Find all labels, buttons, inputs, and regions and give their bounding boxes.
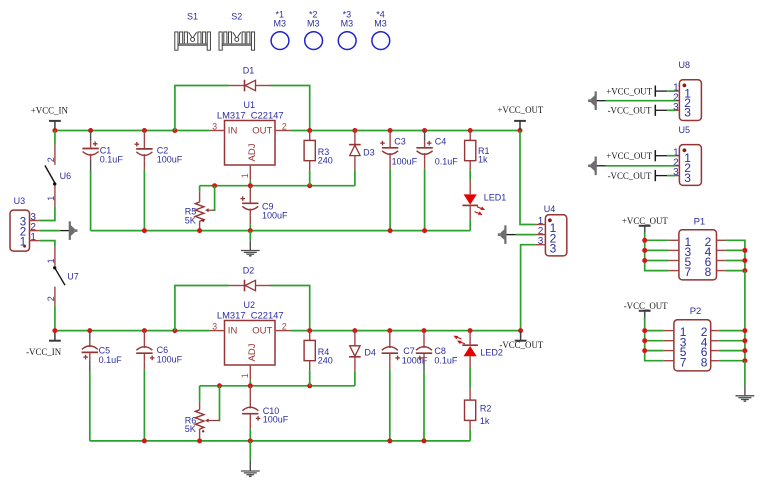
svg-text:P1: P1 [694,216,706,227]
svg-text:M3: M3 [273,18,286,28]
junction P2 left row 3 [642,338,647,343]
wire P2 right row 6 [719,350,745,352]
wire U4 pin2 [516,234,536,236]
op-amp U1 LM317 box [209,121,290,186]
switch U6 [45,131,57,207]
junction R4 top [307,328,312,333]
svg-text:LED2: LED2 [480,348,503,358]
svg-text:0.1uF: 0.1uF [434,355,458,365]
junction -VCC_OUT [518,328,523,333]
svg-text:C3: C3 [394,137,406,147]
junction R1 top [468,128,473,133]
svg-text:S1: S1 [187,11,198,21]
junction P2 left row 1 [642,328,647,333]
resistor R4 [304,331,315,386]
junction -VCC_IN [52,328,57,333]
wire GND rail bottom section [90,440,470,442]
svg-text:3: 3 [212,321,217,331]
junction C2 bottom [142,228,147,233]
svg-text:7: 7 [685,265,692,279]
svg-text:240: 240 [318,155,333,165]
junction P1 right row 6 [742,258,747,263]
svg-text:R2: R2 [480,403,492,413]
svg-text:+VCC_IN: +VCC_IN [31,105,69,115]
junction C9 bottom [248,228,253,233]
wire U5 pin1 [667,155,675,157]
wire -VCC_OUT bus [290,330,520,332]
svg-text:1: 1 [240,173,250,178]
wire ADJ2 net [200,385,355,387]
capacitor C5 [82,331,98,441]
wire P1 left row 3 [645,249,669,251]
ground below C10 [241,441,260,476]
diode D2 [229,280,271,292]
junction P2 right row 6 [742,348,747,353]
junction P2 right row 2 [742,328,747,333]
svg-text:+VCC_OUT: +VCC_OUT [606,151,653,161]
wire U8 pin2 [606,100,676,102]
wire R5 top stub [199,191,201,202]
wire P1 left column [644,227,646,233]
resistor R2 [465,388,476,441]
wire P1 right row 4 [726,249,745,251]
svg-text:+VCC_OUT: +VCC_OUT [497,105,544,115]
net flag U5 pin3 -VCC_OUT [655,170,667,181]
svg-text:OUT: OUT [252,125,272,136]
junction +VCC_IN [52,128,57,133]
svg-text:2: 2 [282,321,287,331]
svg-text:1: 1 [20,236,26,248]
svg-text:U5: U5 [679,125,691,135]
svg-text:3: 3 [212,121,217,131]
supply -VCC_OUT mid [515,331,527,340]
wire U3 pin3 to U6 [40,206,55,220]
junction R3 bottom [307,183,312,188]
svg-text:1k: 1k [480,416,490,426]
junction P1 left row 5 [642,258,647,263]
svg-text:-VCC_OUT: -VCC_OUT [499,340,543,350]
mounting hole M3 *4 [372,32,390,50]
wire U8 pin3 [667,109,675,111]
svg-text:2: 2 [46,157,56,162]
svg-text:D1: D1 [243,65,255,75]
wire U5 pin3 [667,175,675,177]
junction P2 left row 5 [642,348,647,353]
junction P1 left row 1 [642,238,647,243]
svg-text:3: 3 [673,102,679,113]
svg-text:7: 7 [680,355,687,369]
wire P2 left row 3 [645,340,664,342]
wire U3 pin1 to U7 [40,241,55,247]
junction D1 branch [172,128,177,133]
capacitor C2 [135,131,153,231]
junction R5 bottom [197,228,202,233]
svg-text:U1: U1 [243,100,255,110]
heatsink S1 [175,32,211,50]
supply -VCC_OUT P2 [639,311,651,320]
junction C6 bottom [142,438,147,443]
svg-text:100uF: 100uF [392,157,418,167]
junction C2 top [142,128,147,133]
wire R5 top [199,186,201,192]
ground arrow U5 [588,157,597,176]
wire LED1 anode [469,181,471,195]
svg-text:240: 240 [318,355,333,365]
svg-text:D3: D3 [363,147,375,157]
svg-text:M3: M3 [341,18,354,28]
junction C10 bottom [248,438,253,443]
svg-text:-VCC_OUT: -VCC_OUT [624,301,668,311]
svg-text:100uF: 100uF [262,211,288,221]
capacitor C8 [416,331,432,441]
supply +VCC_IN [49,121,61,130]
wire P1 left row 5 [645,260,669,262]
wire D1 right leg [271,86,310,131]
switch U7 [53,247,65,331]
svg-text:3: 3 [684,171,691,185]
svg-text:0.1uF: 0.1uF [435,157,459,167]
wire -VCC_IN bus [55,330,210,332]
svg-text:U2: U2 [243,300,255,310]
heatsink S2 [219,32,255,50]
junction R4 bottom [307,383,312,388]
op-amp U2 LM317 box [209,321,290,386]
svg-text:C4: C4 [435,137,447,147]
junction C8 bottom [422,438,427,443]
connector P1 box [669,230,726,280]
junction ADJ pin [248,183,253,188]
svg-text:IN: IN [228,325,238,336]
svg-text:1: 1 [30,232,36,243]
svg-text:M3: M3 [307,18,320,28]
supply -VCC_IN [49,331,61,340]
svg-text:1: 1 [240,373,250,378]
svg-text:0.1uF: 0.1uF [100,155,124,165]
svg-text:LM317 C22147: LM317 C22147 [217,110,284,121]
mounting hole M3 *3 [338,32,356,50]
connector U5 box [675,145,701,186]
wire U3 pin2 [40,230,61,232]
capacitor C3 [380,131,398,231]
wire +VCC_OUT to U4 pin1 [520,131,535,225]
junction P1 right row 8 [742,268,747,273]
capacitor C4 [416,131,432,231]
junction P1 right row 4 [742,248,747,253]
wire P1 right row 8 [726,270,745,272]
wire P2 left row 1 [645,330,664,332]
wire D2 right leg [271,286,310,331]
svg-text:100uF: 100uF [157,355,183,365]
wire wiper [214,186,215,211]
svg-text:ADJ: ADJ [247,343,258,361]
junction C4 bottom [422,228,427,233]
wire P2 left column [644,312,646,317]
svg-text:100uF: 100uF [157,155,183,165]
wire LED2 anode [469,331,471,345]
junction C8 top [422,328,427,333]
resistor R3 [304,131,315,186]
wire P2 to P1 right column [744,271,746,361]
svg-text:2: 2 [282,121,287,131]
junction C3 top [388,128,393,133]
svg-text:3: 3 [550,241,557,255]
svg-text:1k: 1k [478,154,488,164]
junction R3 top [307,128,312,133]
svg-text:D4: D4 [364,347,376,357]
junction D3 top [352,128,357,133]
wire LED1 cathode [469,206,471,220]
svg-text:5K: 5K [185,216,196,226]
svg-text:-VCC_OUT: -VCC_OUT [608,106,652,116]
ground arrow U8 [588,91,597,110]
svg-text:3: 3 [538,236,544,247]
wire ADJ net [200,185,355,187]
capacitor C7 [382,331,400,441]
junction wiper [212,183,217,188]
svg-text:+VCC_OUT: +VCC_OUT [606,87,653,97]
junction C5 top [87,328,92,333]
wire U4 pin3 to -VCC_OUT rail [521,245,536,331]
svg-text:D2: D2 [243,265,255,275]
wire P2 right row 4 [719,340,745,342]
svg-text:IN: IN [228,125,238,136]
wire U5 pin2 [606,165,676,167]
svg-text:LM317 C22147: LM317 C22147 [217,310,284,321]
junction C7 top [387,328,392,333]
wire D2 left leg [175,286,229,331]
junction R6 bottom [197,438,202,443]
wire OUT bus [290,130,520,132]
wire P1 right row 6 [726,260,745,262]
connector U8 box [675,80,701,121]
ground below C9 [241,231,260,256]
svg-text:LED1: LED1 [484,193,507,203]
junction D2 branch [172,328,177,333]
wire D1 left leg [175,86,229,131]
capacitor C10 [242,386,260,441]
net flag U8 pin1 +VCC_OUT [655,86,667,97]
junction C3 bottom [388,228,393,233]
svg-text:2: 2 [46,296,56,301]
junction +VCC_OUT [518,128,523,133]
wire R6 top [199,386,201,402]
svg-text:U7: U7 [67,271,79,281]
potentiometer R6 [195,410,219,441]
junction P2 right row 8 [742,358,747,363]
junction D4 top [352,328,357,333]
wire wiper 2 [218,386,219,421]
wire P2 right row 8 [719,360,745,362]
connector U4 box [535,215,566,256]
svg-text:U8: U8 [679,60,691,70]
wire P2 right row 2 [719,330,745,332]
ground below P2 [736,361,755,401]
potentiometer R5 [195,202,214,231]
junction wiper 2 [217,383,222,388]
svg-text:0.1uF: 0.1uF [99,355,123,365]
wire GND rail top section [91,230,471,232]
wire U8 pin1 [667,90,675,92]
supply +VCC_OUT top [514,121,526,130]
capacitor C1 [82,131,98,231]
diode D3 [349,131,361,186]
net flag U5 pin1 +VCC_OUT [655,150,667,161]
junction P1 left row 3 [642,248,647,253]
junction ADJ2 pin [248,383,253,388]
wire R6 top stub [199,401,201,410]
svg-text:-VCC_IN: -VCC_IN [26,347,62,357]
wire LED2 to R2 [469,356,471,367]
wire P1 right column [726,240,745,270]
resistor R1 [465,131,476,181]
svg-text:+VCC_OUT: +VCC_OUT [622,216,669,226]
connector P2 box [664,320,719,371]
supply +VCC_OUT P1 [639,226,651,235]
junction P2 right row 4 [742,338,747,343]
svg-text:U3: U3 [14,196,26,206]
junction C4 top [422,128,427,133]
svg-text:OUT: OUT [252,325,272,336]
capacitor C6 [136,331,154,441]
junction C7 bottom [387,438,392,443]
mounting hole M3 *2 [305,32,323,50]
wire +VCC_IN bus [55,130,210,132]
svg-text:100uF: 100uF [263,415,289,425]
diode D1 [229,80,271,92]
svg-text:3: 3 [673,167,679,178]
svg-text:1: 1 [46,258,56,263]
svg-text:5K: 5K [185,424,196,434]
svg-text:8: 8 [705,265,712,279]
wire P1 left row 1 [645,239,669,241]
svg-text:P2: P2 [690,306,702,317]
junction C6 top [142,328,147,333]
ground arrow U3 [69,221,78,240]
svg-text:8: 8 [701,355,708,369]
svg-text:-VCC_OUT: -VCC_OUT [608,171,652,181]
net flag U8 pin3 -VCC_OUT [655,105,667,116]
capacitor C9 [240,186,258,231]
mounting hole M3 *1 [271,32,289,50]
svg-text:3: 3 [684,106,691,120]
svg-text:M3: M3 [374,18,387,28]
junction C1 top [88,128,93,133]
ground arrow U4 [498,225,507,244]
diode D4 [349,331,361,386]
junction LED2 top [468,328,473,333]
connector U3 box [10,210,40,251]
svg-text:U6: U6 [60,171,72,181]
wire P2 left row 5 [645,350,664,352]
svg-text:ADJ: ADJ [247,143,258,161]
svg-text:S2: S2 [231,11,242,21]
svg-text:1: 1 [46,196,56,201]
svg-text:U4: U4 [544,204,556,214]
LED LED1 [462,194,485,215]
LED LED2 [453,336,478,357]
